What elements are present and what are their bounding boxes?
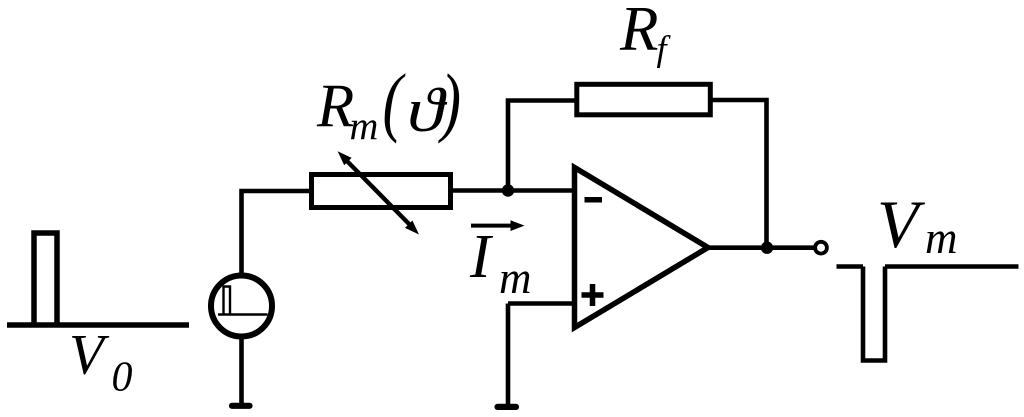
resistor Rm variable arrow [338, 151, 419, 234]
svg-text:R: R [619, 0, 658, 64]
current Im arrow [471, 220, 525, 231]
ground under source [232, 403, 250, 409]
svg-text:I: I [469, 223, 494, 291]
node B output junction dot [761, 242, 773, 254]
wire source bottom to ground [239, 335, 244, 403]
svg-text:m: m [925, 213, 958, 263]
wire noninverting input [508, 301, 574, 306]
op-amp U1 plus sign [582, 284, 604, 306]
svg-text:): ) [438, 58, 461, 144]
svg-text:m: m [499, 253, 532, 303]
svg-text:0: 0 [112, 355, 133, 401]
ground under noninverting input [498, 404, 517, 410]
output terminal open circle [815, 242, 827, 254]
input waveform V0 baseline [7, 322, 189, 328]
svg-text:V: V [69, 323, 110, 386]
wire Rm to inverting node [450, 188, 574, 193]
resistor Rm body [312, 175, 451, 208]
wire feedback up from node [508, 101, 576, 193]
svg-text:f: f [657, 29, 672, 69]
node A junction dot [502, 184, 514, 196]
svg-text:(: ( [383, 58, 406, 144]
output waveform Vm baseline right [885, 264, 1019, 269]
wire Rf to output node [711, 100, 767, 248]
svg-text:V: V [877, 186, 926, 262]
wire op-amp output [708, 245, 815, 250]
voltage source V1 circle [211, 276, 272, 337]
output waveform Vm baseline left [837, 264, 864, 269]
op-amp U1 minus sign [585, 197, 603, 203]
resistor Rf body [577, 84, 711, 115]
output waveform Vm pulse [863, 267, 885, 361]
op-amp U1 triangle [575, 168, 709, 328]
wire source top to Rm [242, 191, 312, 277]
voltage source V1 pulse symbol [218, 287, 268, 315]
svg-text:m: m [350, 103, 379, 148]
input waveform V0 pulse [34, 233, 57, 328]
wire noninverting to ground [506, 304, 511, 405]
